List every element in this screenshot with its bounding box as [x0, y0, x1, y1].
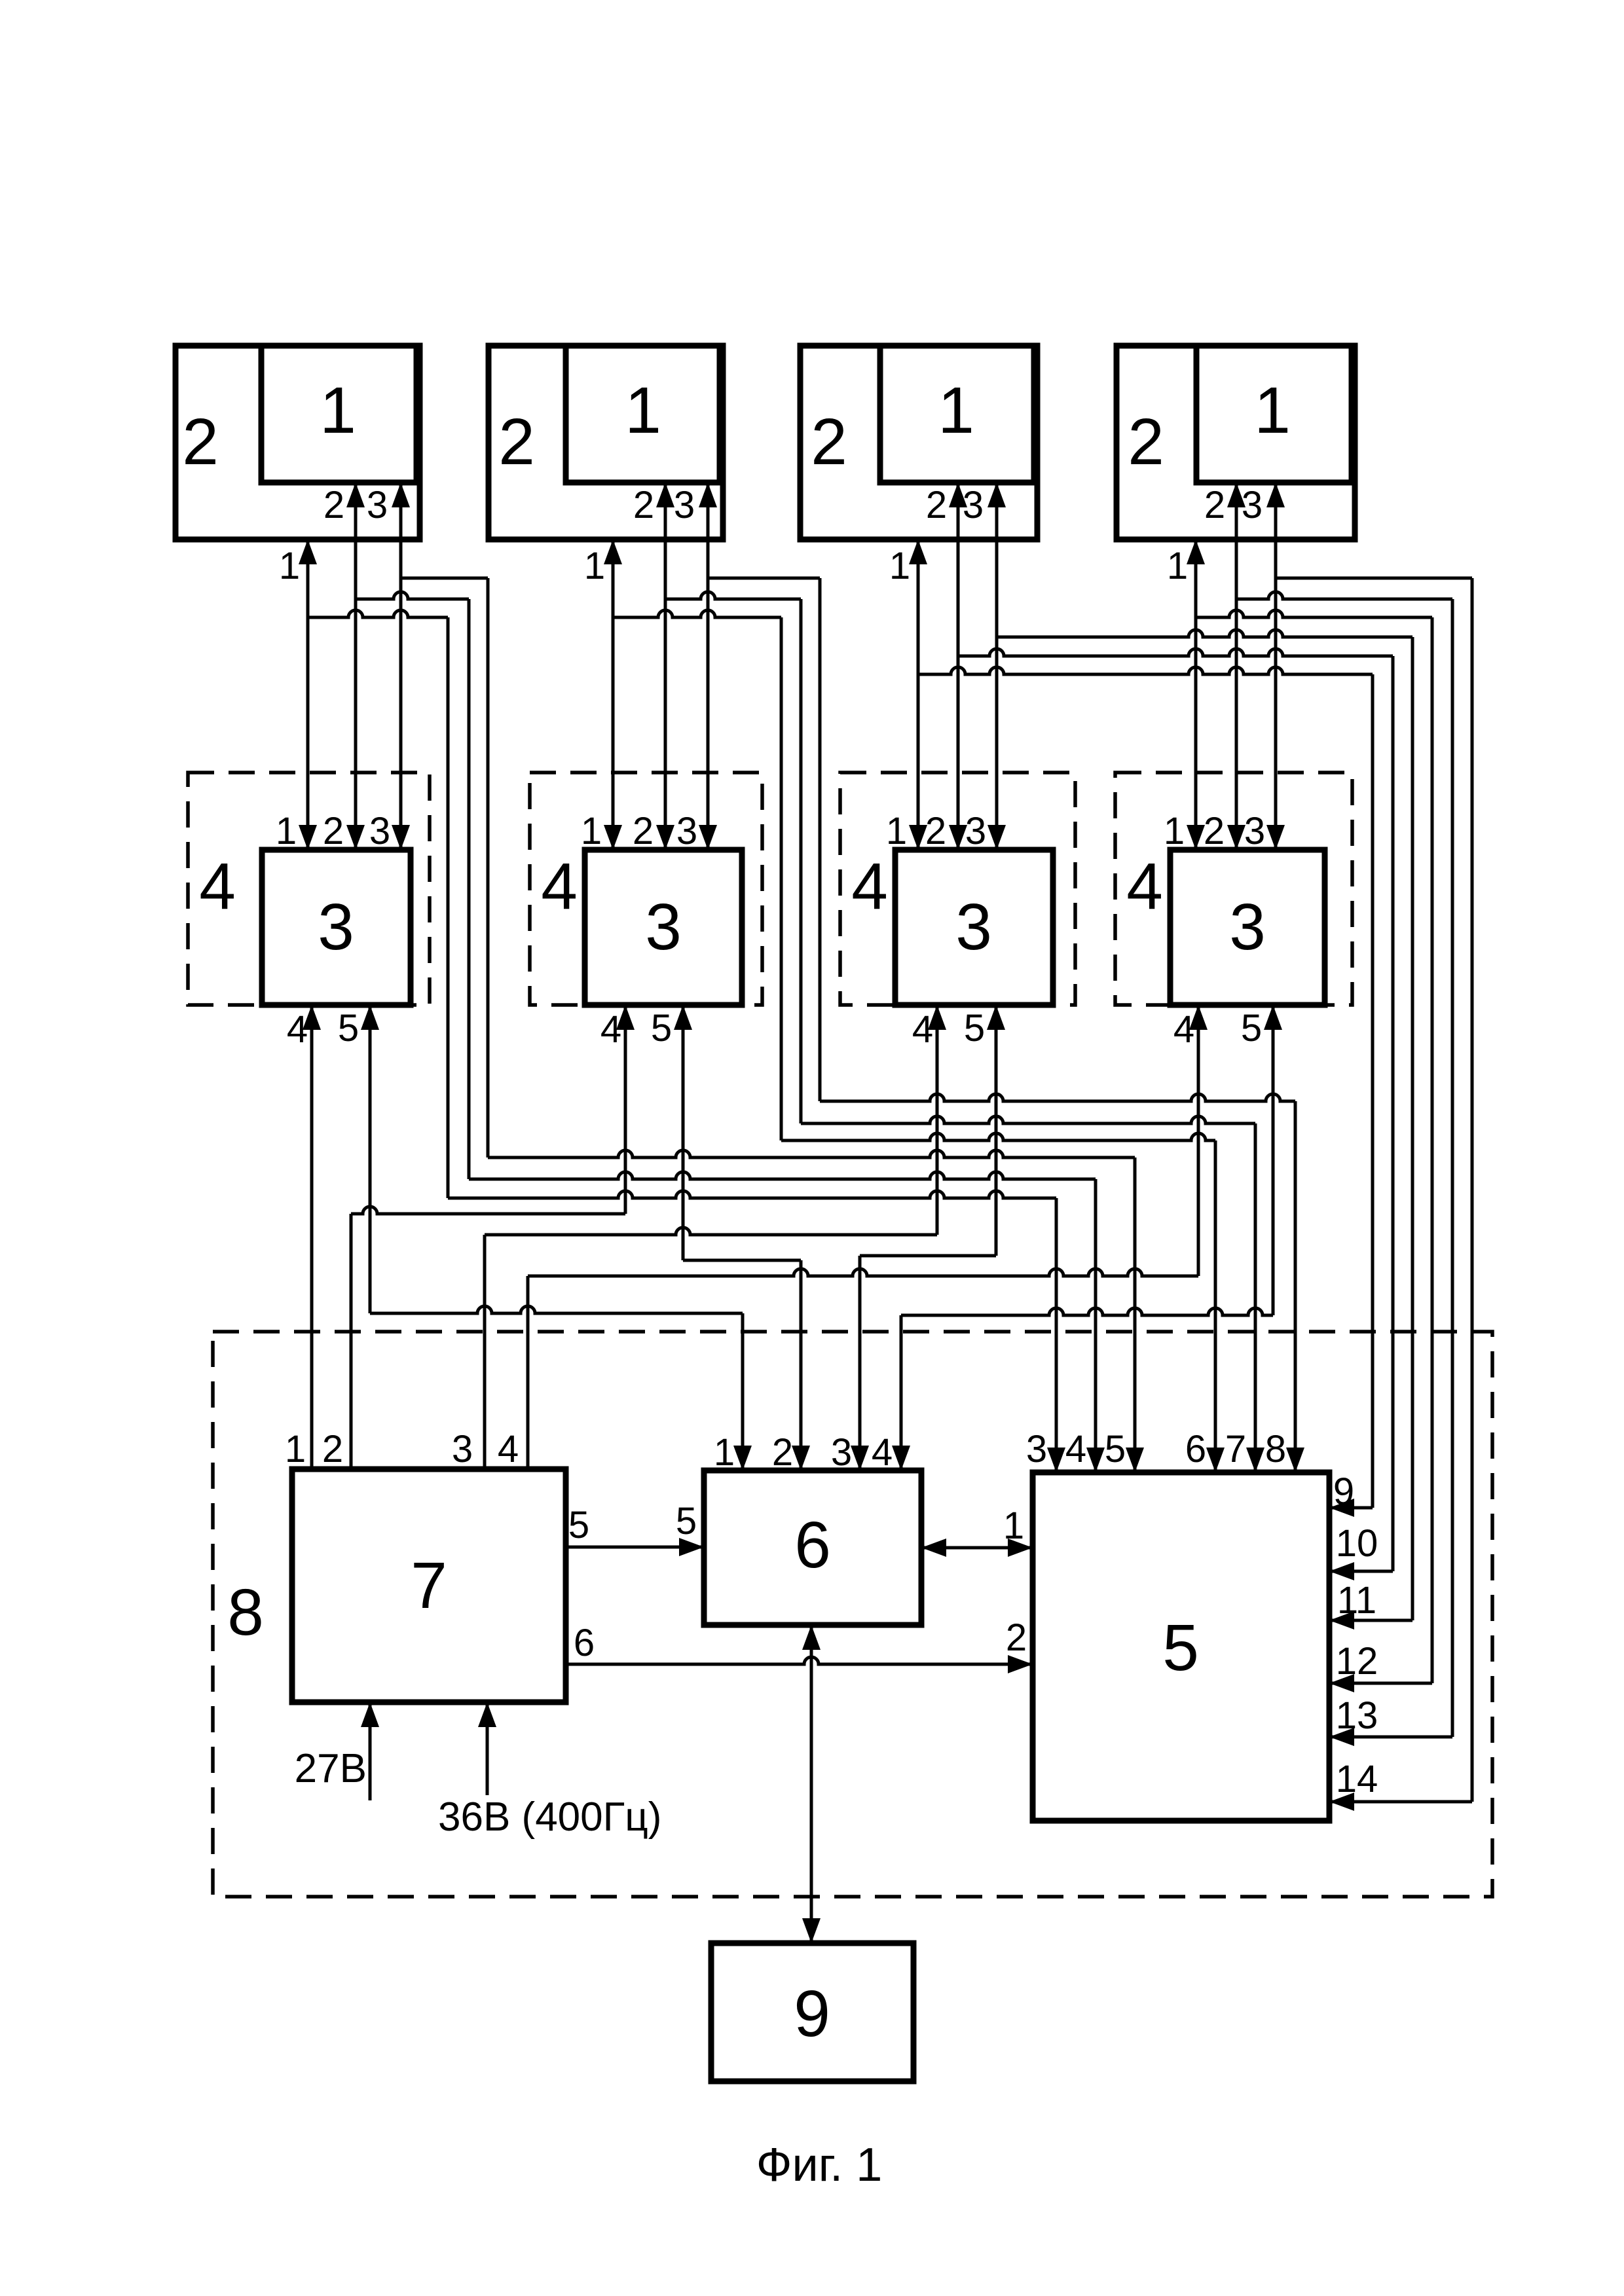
wire block7 pin6 to block5 pin2	[566, 1657, 1033, 1664]
wire pin2 g3	[957, 483, 960, 850]
svg-text:2: 2	[633, 810, 654, 852]
svg-text:4: 4	[1126, 850, 1163, 923]
svg-text:27В: 27В	[295, 1746, 367, 1791]
wire bus684 to block5 pin3	[448, 1191, 1056, 1198]
wire pin3 g3	[995, 483, 999, 850]
block 3 box group3	[895, 850, 1053, 1005]
block 1 box group2	[566, 346, 720, 483]
wire g3 pin4 leg	[936, 1005, 939, 1235]
wire g2pin5 to block6 pin2	[683, 1259, 801, 1262]
svg-text:6: 6	[1185, 1428, 1206, 1470]
svg-text:5: 5	[1241, 1007, 1262, 1049]
svg-text:4: 4	[912, 1008, 933, 1051]
wire pin2 g1	[354, 483, 358, 850]
dashed box 8	[213, 1332, 1492, 1897]
svg-text:2: 2	[811, 405, 847, 479]
wire branch g1 pin2 to bus716	[356, 592, 469, 599]
svg-text:5: 5	[1162, 1611, 1199, 1685]
svg-text:1: 1	[1164, 810, 1185, 852]
svg-text:3: 3	[955, 890, 992, 964]
svg-text:3: 3	[318, 890, 354, 964]
block 2 box group1	[175, 346, 420, 539]
wire g4pin5 to block6 pin4	[901, 1308, 1273, 1315]
block 3 box group2	[585, 850, 742, 1005]
svg-text:8: 8	[227, 1576, 264, 1649]
wire pin1 g4	[1194, 539, 1198, 850]
svg-text:9: 9	[794, 1977, 830, 2050]
svg-text:3: 3	[1244, 810, 1265, 852]
svg-text:36В (400Гц): 36В (400Гц)	[438, 1795, 661, 1840]
svg-text:3: 3	[367, 484, 388, 526]
svg-text:3: 3	[369, 810, 390, 852]
svg-text:13: 13	[1336, 1694, 1378, 1737]
svg-text:3: 3	[963, 484, 984, 526]
wire 27V supply into block7	[369, 1702, 372, 1800]
wire branch g3 pin1 to bus2096	[918, 667, 1373, 674]
wire branch g3 pin3 to bus2157	[997, 630, 1412, 637]
block 5 box	[1033, 1472, 1329, 1821]
svg-text:5: 5	[1105, 1428, 1126, 1470]
wire bus2218 to block5 pin 13	[1329, 1736, 1452, 1739]
block 2 box group3	[800, 346, 1037, 539]
svg-text:2: 2	[1204, 484, 1225, 526]
svg-text:1: 1	[276, 810, 297, 852]
wire bus1223 to block5 pin7	[801, 1116, 1255, 1123]
svg-text:3: 3	[1229, 890, 1266, 964]
svg-text:4: 4	[1065, 1428, 1086, 1470]
wire pin2 g2	[664, 483, 667, 850]
svg-text:6: 6	[574, 1622, 595, 1664]
wire g3 pin5 leg	[995, 1005, 998, 1256]
svg-text:1: 1	[938, 374, 974, 447]
svg-text:7: 7	[411, 1549, 447, 1622]
svg-text:6: 6	[794, 1508, 831, 1582]
svg-text:2: 2	[925, 810, 946, 852]
svg-text:10: 10	[1336, 1522, 1378, 1565]
dashed box 4 group4	[1115, 773, 1352, 1005]
svg-text:2: 2	[498, 405, 535, 479]
wire g2 pin5 leg	[682, 1005, 685, 1260]
wire branch g1 pin1 to bus684	[308, 610, 448, 617]
dashed box 4 group3	[840, 773, 1075, 1005]
block 3 box group4	[1170, 850, 1325, 1005]
svg-text:2: 2	[1204, 810, 1225, 852]
svg-text:2: 2	[322, 1428, 343, 1470]
svg-text:2: 2	[323, 484, 344, 526]
wire bus2187 to block5 pin 12	[1329, 1682, 1432, 1685]
svg-text:2: 2	[772, 1431, 793, 1474]
wire bus2127 to block5 pin 10	[1329, 1570, 1393, 1573]
wire g2 pin4 leg	[624, 1005, 627, 1214]
svg-text:1: 1	[886, 810, 907, 852]
dashed box 4 group1	[188, 773, 430, 1005]
wire pin1 g2	[612, 539, 615, 850]
svg-text:3: 3	[674, 484, 695, 526]
svg-text:4: 4	[872, 1431, 893, 1474]
wire branch g2 pin3 to bus1252	[708, 577, 820, 580]
svg-text:1: 1	[285, 1428, 306, 1470]
svg-text:2: 2	[926, 484, 947, 526]
wire g3pin4 to block7 pin3	[485, 1228, 937, 1235]
svg-text:1: 1	[889, 545, 910, 587]
svg-text:4: 4	[541, 850, 578, 923]
wire branch g4 pin3 to bus2248	[1276, 577, 1472, 580]
svg-text:7: 7	[1225, 1428, 1246, 1470]
wire g4 pin5 leg	[1272, 1005, 1275, 1315]
wire g1pin5 to block6 pin1	[370, 1306, 743, 1313]
svg-text:4: 4	[287, 1008, 308, 1051]
svg-text:5: 5	[338, 1007, 359, 1049]
wire g4 pin4 leg	[1197, 1005, 1200, 1276]
wire 36V supply into block7	[486, 1702, 489, 1795]
wire bus2096 to block5 pin 9	[1329, 1506, 1373, 1510]
wire g3pin5 to block6 pin3	[860, 1254, 996, 1258]
svg-text:5: 5	[676, 1500, 697, 1542]
block 2 box group4	[1116, 346, 1355, 539]
wire bus2157 to block5 pin 11	[1329, 1619, 1412, 1622]
block 7 box	[292, 1469, 566, 1702]
svg-text:4: 4	[498, 1428, 519, 1470]
wire bus1193 to block5 pin6	[781, 1133, 1215, 1140]
wire bus1252 to block5 pin8	[820, 1094, 1295, 1101]
svg-text:1: 1	[581, 810, 602, 852]
svg-text:3: 3	[645, 890, 682, 964]
svg-text:5: 5	[651, 1007, 672, 1049]
block 1 box group3	[880, 346, 1034, 483]
wire block7 pin5 to block6 pin5	[566, 1546, 704, 1549]
svg-text:3: 3	[1026, 1428, 1047, 1470]
wire g4pin4 to block7 pin4	[528, 1269, 1198, 1276]
svg-text:4: 4	[199, 850, 236, 923]
wire g1 pin5 leg	[369, 1005, 372, 1313]
svg-text:3: 3	[676, 810, 697, 852]
wire bus716 to block5 pin4	[469, 1172, 1096, 1179]
svg-text:5: 5	[568, 1504, 589, 1546]
svg-text:1: 1	[1254, 374, 1291, 447]
wire block6 - block5 bidirectional pin1	[921, 1546, 1033, 1550]
wire pin1 g3	[917, 539, 920, 850]
wire pin3 g2	[707, 483, 710, 850]
svg-text:1: 1	[714, 1431, 735, 1474]
svg-text:1: 1	[584, 545, 605, 587]
wire branch g4 pin2 to bus2218	[1236, 592, 1452, 599]
svg-text:14: 14	[1336, 1758, 1378, 1800]
wire g2pin4 to block7 pin2	[351, 1207, 625, 1214]
wire branch g2 pin1 to bus1193	[613, 610, 781, 617]
svg-text:2: 2	[323, 810, 344, 852]
svg-text:8: 8	[1265, 1428, 1286, 1470]
svg-text:4: 4	[851, 850, 888, 923]
wire branch g2 pin2 to bus1223	[665, 592, 801, 599]
svg-text:5: 5	[964, 1007, 985, 1049]
wire block6 to block9 bidirectional	[810, 1625, 813, 1943]
svg-text:1: 1	[1167, 545, 1188, 587]
block 1 box group4	[1196, 346, 1352, 483]
wire branch g1 pin3 to bus745	[401, 577, 488, 580]
wire pin3 g4	[1274, 483, 1278, 850]
wire branch g4 pin1 to bus2187	[1196, 610, 1432, 617]
svg-text:3: 3	[1242, 484, 1263, 526]
svg-text:1: 1	[625, 374, 661, 447]
block 6 box	[704, 1470, 921, 1625]
svg-text:2: 2	[633, 484, 654, 526]
dashed box 4 group2	[530, 773, 762, 1005]
wire bus745 to block5 pin5	[488, 1150, 1135, 1157]
block 9 box	[711, 1943, 913, 2081]
block 1 box group1	[261, 346, 416, 483]
wire pin2 g4	[1235, 483, 1238, 850]
svg-text:3: 3	[452, 1428, 473, 1470]
svg-text:11: 11	[1337, 1579, 1376, 1622]
wire branch g3 pin2 to bus2127	[958, 649, 1393, 656]
svg-text:Фиг. 1: Фиг. 1	[756, 2139, 882, 2191]
svg-text:4: 4	[1173, 1008, 1194, 1051]
wire bus2248 to block5 pin 14	[1329, 1800, 1472, 1804]
wire pin3 g1	[399, 483, 403, 850]
svg-text:3: 3	[965, 810, 986, 852]
svg-text:2: 2	[1128, 405, 1164, 479]
svg-text:2: 2	[1006, 1616, 1027, 1659]
svg-text:4: 4	[600, 1008, 621, 1051]
svg-text:9: 9	[1333, 1470, 1354, 1513]
wire g1 pin4 to block7 pin1	[310, 1005, 314, 1469]
svg-text:1: 1	[320, 374, 356, 447]
block 3 box group1	[262, 850, 411, 1005]
svg-text:2: 2	[182, 405, 219, 479]
wire pin1 g1	[306, 539, 310, 850]
svg-text:1: 1	[1003, 1504, 1024, 1547]
block 2 box group2	[489, 346, 723, 539]
svg-text:1: 1	[279, 545, 300, 587]
svg-text:3: 3	[831, 1431, 852, 1474]
svg-text:12: 12	[1336, 1640, 1378, 1683]
